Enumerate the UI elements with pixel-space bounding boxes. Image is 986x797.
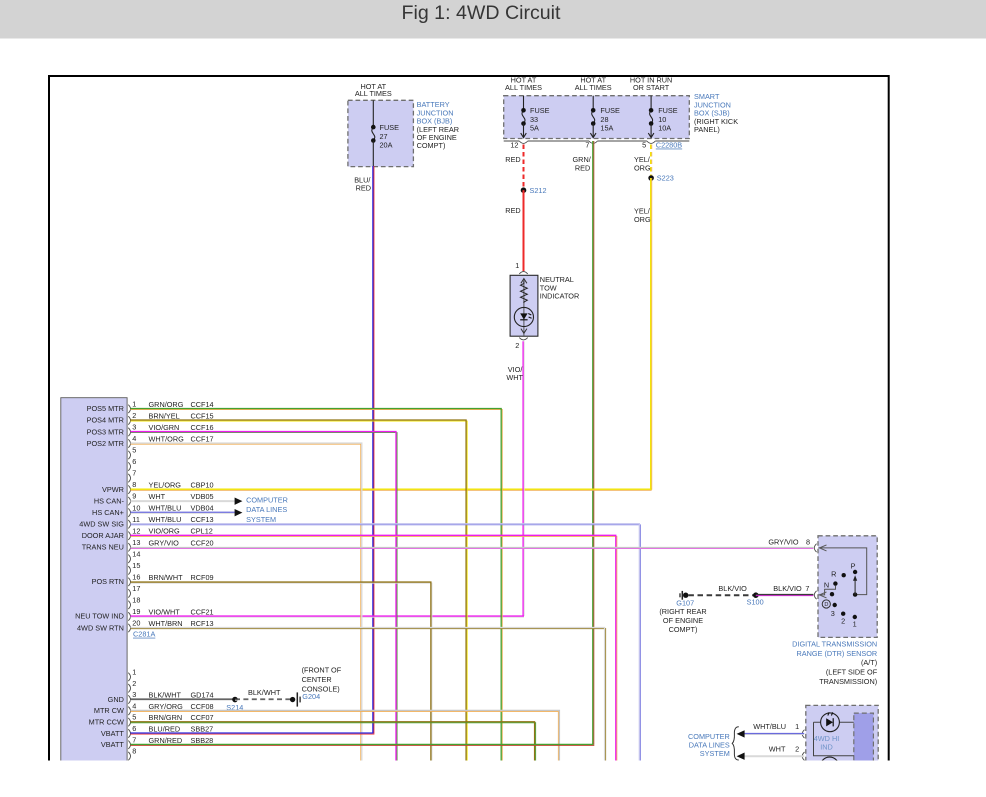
label HOT AT ALL TIMES (BJB) <box>355 82 392 98</box>
svg-text:ALL TIMES: ALL TIMES <box>505 83 542 92</box>
wire BLK/WHT pin 3 lower (GND) to splice S214 <box>130 699 235 700</box>
svg-text:CCF08: CCF08 <box>191 702 214 711</box>
diagram border frame <box>49 76 889 766</box>
wire GRN/RED from fuse 28 down to module pin 7 row <box>593 141 594 745</box>
wire BLK/WHT dashed from S214 to ground G204 <box>235 699 291 700</box>
svg-text:RCF09: RCF09 <box>191 573 214 582</box>
svg-text:Fig 1: 4WD Circuit: Fig 1: 4WD Circuit <box>402 2 562 24</box>
connector C281A pin 9 <box>94 492 214 506</box>
svg-text:(LEFT SIDE OF: (LEFT SIDE OF <box>826 668 878 677</box>
wire YEL/ORG from S223 to corner <box>651 178 652 490</box>
svg-text:4: 4 <box>132 701 136 710</box>
svg-text:CCF16: CCF16 <box>191 423 214 432</box>
svg-text:SYSTEM: SYSTEM <box>700 749 730 758</box>
svg-text:POS5 MTR: POS5 MTR <box>87 404 124 413</box>
svg-text:WHT: WHT <box>506 373 523 382</box>
wire VIO/WHT from indicator pin 2 to corner <box>523 341 524 616</box>
svg-text:WHT: WHT <box>149 492 166 501</box>
connector C281A pin 5 <box>128 446 136 460</box>
label HOT IN RUN OR START (fuse 10) <box>630 76 672 92</box>
svg-text:9: 9 <box>132 492 136 501</box>
svg-text:2: 2 <box>132 411 136 420</box>
svg-text:1: 1 <box>132 668 136 677</box>
svg-text:GND: GND <box>108 695 124 704</box>
svg-text:GRN/RED: GRN/RED <box>149 736 183 745</box>
fuse 33 5A <box>521 96 527 138</box>
wire GRN/ORG pin 1 (POS5 MTR) right and down <box>130 408 502 765</box>
svg-text:(FRONT OF: (FRONT OF <box>302 666 342 675</box>
connector C281A pin 13 <box>82 538 214 552</box>
label YEL/ORG (upper) <box>634 155 651 172</box>
connector C281A pin 2 <box>87 411 214 425</box>
digital transmission range (DTR) sensor box <box>818 536 877 638</box>
wire WHT/BRN pin 20 (4WD SW RTN) right and down <box>130 628 605 766</box>
svg-text:4WD SW SIG: 4WD SW SIG <box>79 520 124 529</box>
svg-text:P: P <box>851 562 856 571</box>
svg-text:CPL12: CPL12 <box>191 527 213 536</box>
DTR pin 8 cup <box>814 544 816 552</box>
svg-text:4: 4 <box>132 434 136 443</box>
4WD control module (left connector box) <box>61 398 127 766</box>
DTR pin 7 cup <box>814 591 816 599</box>
svg-text:IND: IND <box>820 742 833 751</box>
svg-text:TRANSMISSION): TRANSMISSION) <box>819 677 877 686</box>
svg-text:N: N <box>824 581 829 590</box>
wire BLU/RED pin 6 lower (VBATT) right and up to fuse 27 <box>130 733 374 734</box>
svg-text:GRY/VIO: GRY/VIO <box>149 538 180 547</box>
svg-text:7: 7 <box>132 735 136 744</box>
svg-text:2: 2 <box>795 745 799 754</box>
arrow to computer data lines (pin 2) <box>737 753 745 760</box>
connector C281A pin 11 <box>79 515 213 529</box>
svg-text:WHT/ORG: WHT/ORG <box>149 434 185 443</box>
connector C281B pin 6 <box>101 724 213 738</box>
svg-text:BRN/GRN: BRN/GRN <box>149 713 183 722</box>
neutral tow indicator <box>510 275 538 336</box>
svg-text:(RIGHT REAR: (RIGHT REAR <box>659 607 706 616</box>
label FUSE 33 5A <box>530 106 550 132</box>
svg-text:TRANS NEU: TRANS NEU <box>82 543 124 552</box>
svg-text:CCF17: CCF17 <box>191 434 214 443</box>
connector C281A pin 6 <box>128 457 136 471</box>
svg-text:DOOR AJAR: DOOR AJAR <box>82 531 124 540</box>
4WD HI IND pin 2 cup <box>802 752 804 760</box>
label FUSE 27 20A <box>380 123 400 149</box>
svg-text:COMPUTER: COMPUTER <box>246 496 288 505</box>
svg-text:POS3 MTR: POS3 MTR <box>87 427 124 436</box>
svg-text:BLK/VIO: BLK/VIO <box>773 584 802 593</box>
svg-text:S100: S100 <box>747 598 764 607</box>
svg-text:COMPT): COMPT) <box>669 625 698 634</box>
svg-text:ALL TIMES: ALL TIMES <box>575 83 612 92</box>
DTR internal circuit <box>819 545 867 619</box>
connector C281A pin 15 <box>128 561 140 575</box>
svg-text:1: 1 <box>515 261 519 270</box>
svg-text:WHT/BLU: WHT/BLU <box>149 504 182 513</box>
label HOT AT ALL TIMES (fuse 28) <box>575 76 612 92</box>
svg-text:WHT/BLU: WHT/BLU <box>149 515 182 524</box>
label DIGITAL TRANSMISSION RANGE (DTR) SENSOR (A/T) (LEFT SIDE OF TRANSMISSION) <box>792 639 878 686</box>
svg-text:RED: RED <box>505 155 520 164</box>
wire WHT/ORG pin 4 (POS2 MTR) right and down <box>130 443 361 765</box>
svg-text:S223: S223 <box>657 174 674 183</box>
connector C281A pin 14 <box>128 549 140 563</box>
svg-text:10: 10 <box>132 503 140 512</box>
svg-text:COMPT): COMPT) <box>417 141 446 150</box>
svg-text:D: D <box>824 602 828 608</box>
title banner <box>0 0 986 39</box>
arrow to computer data lines (pin 10) <box>235 509 243 516</box>
svg-text:PANEL): PANEL) <box>694 125 720 134</box>
svg-text:8: 8 <box>132 480 136 489</box>
wire VIO/GRN pin 3 (POS3 MTR) right and down <box>130 432 397 766</box>
connector C281B pin 7 <box>101 735 213 749</box>
svg-text:G204: G204 <box>302 692 320 701</box>
fuse 27 20A <box>371 100 376 166</box>
svg-text:3: 3 <box>132 690 136 699</box>
svg-text:18: 18 <box>132 596 140 605</box>
label VIO/WHT <box>506 365 523 382</box>
svg-text:7: 7 <box>132 469 136 478</box>
connector C281A pin 12 <box>82 526 213 540</box>
wire BRN/GRN pin 5 lower (MTR CCW) right and down <box>130 722 535 766</box>
svg-text:MTR CCW: MTR CCW <box>89 717 124 726</box>
wire WHT/BLU pin 10 (HS CAN+) to computer data lines <box>130 512 234 513</box>
svg-text:11: 11 <box>132 515 140 524</box>
svg-text:RED: RED <box>356 184 371 193</box>
svg-text:CCF07: CCF07 <box>191 713 214 722</box>
fuse 28 15A <box>590 96 596 138</box>
ground G204 <box>290 692 300 706</box>
wire WHT/BLU pin 11 (4WD SW SIG) right and down <box>130 524 640 766</box>
label FUSE 10 10A <box>658 106 678 132</box>
connector C281A pin 8 <box>102 480 214 494</box>
wire BRN/YEL pin 2 (POS4 MTR) right and down <box>130 420 467 765</box>
svg-text:C281A: C281A <box>133 630 155 639</box>
arrow to computer data lines (pin 9) <box>235 497 243 504</box>
svg-text:GRN/ORG: GRN/ORG <box>149 400 184 409</box>
svg-text:6: 6 <box>132 457 136 466</box>
svg-text:RED: RED <box>505 206 520 215</box>
wire BRN/WHT pin 16 (POS RTN) right and down <box>130 582 432 765</box>
wire WHT/BLU to 4WD HI IND pin 1 <box>744 733 804 734</box>
svg-text:BRN/WHT: BRN/WHT <box>149 573 184 582</box>
svg-text:5: 5 <box>132 446 136 455</box>
splice S100 <box>753 592 759 598</box>
svg-text:(A/T): (A/T) <box>861 658 877 667</box>
svg-text:20A: 20A <box>380 140 393 149</box>
svg-text:C2280B: C2280B <box>656 141 683 150</box>
svg-text:5: 5 <box>642 141 646 150</box>
svg-text:15: 15 <box>132 561 140 570</box>
wire WHT to 4WD HI IND pin 2 <box>744 755 804 757</box>
curly brace (computer data lines) <box>732 727 739 760</box>
label BLU/RED <box>354 175 371 192</box>
arrow to computer data lines (pin 1) <box>737 730 745 737</box>
svg-text:WHT/BRN: WHT/BRN <box>149 619 183 628</box>
splice S212 <box>521 187 527 193</box>
svg-text:GRY/ORG: GRY/ORG <box>149 702 184 711</box>
splice S223 <box>648 175 654 181</box>
svg-text:GD174: GD174 <box>191 691 214 700</box>
smart junction box (SJB) <box>504 96 690 139</box>
svg-text:CONSOLE): CONSOLE) <box>302 684 340 693</box>
svg-text:ALL TIMES: ALL TIMES <box>355 89 392 98</box>
svg-text:1: 1 <box>132 400 136 409</box>
svg-text:CENTER: CENTER <box>302 675 332 684</box>
svg-text:VPWR: VPWR <box>102 485 124 494</box>
svg-text:BLK/WHT: BLK/WHT <box>149 691 182 700</box>
svg-text:1: 1 <box>853 620 857 629</box>
svg-text:VIO/WHT: VIO/WHT <box>149 607 181 616</box>
connector C281A pin 20 <box>77 619 214 633</box>
svg-text:14: 14 <box>132 549 140 558</box>
svg-text:DIGITAL TRANSMISSION: DIGITAL TRANSMISSION <box>792 639 877 648</box>
connector C281B pin 1 <box>128 668 136 682</box>
label (RIGHT REAR OF ENGINE COMPT) <box>659 607 706 634</box>
svg-text:20: 20 <box>132 619 140 628</box>
connector C281B pin 2 <box>128 679 136 693</box>
wire RED dashed from fuse 33 to splice S212 <box>523 145 525 191</box>
module name SMART JUNCTION BOX (SJB) <box>694 92 738 134</box>
svg-text:WHT: WHT <box>769 745 786 754</box>
svg-text:POS RTN: POS RTN <box>92 577 124 586</box>
wire BLK/VIO dashed from G107 to splice S100 <box>688 594 755 596</box>
svg-text:RANGE (DTR) SENSOR: RANGE (DTR) SENSOR <box>797 649 878 658</box>
svg-text:POS4 MTR: POS4 MTR <box>87 416 124 425</box>
wire GRY/ORG pin 4 lower (MTR CW) right and down <box>130 710 559 765</box>
wire VIO/ORG pin 12 (DOOR AJAR) right and down <box>130 535 616 765</box>
connector C281A pin 1 <box>87 400 214 414</box>
connector C281A pin 7 <box>128 469 136 483</box>
svg-text:VIO/ORG: VIO/ORG <box>149 527 181 536</box>
connector C281A pin 18 <box>128 596 140 610</box>
svg-text:GRY/VIO: GRY/VIO <box>768 537 799 546</box>
wire RED from S212 to neutral tow indicator pin 1 <box>523 190 525 271</box>
connector C281A pin 4 <box>87 434 214 448</box>
svg-text:YEL/ORG: YEL/ORG <box>149 481 182 490</box>
svg-text:3: 3 <box>132 423 136 432</box>
svg-text:8: 8 <box>132 747 136 756</box>
svg-text:16: 16 <box>132 572 140 581</box>
4WD HI IND pin 1 cup <box>802 730 804 738</box>
svg-text:4WD SW RTN: 4WD SW RTN <box>77 623 124 632</box>
svg-text:CCF21: CCF21 <box>191 607 214 616</box>
svg-text:MTR CW: MTR CW <box>94 706 124 715</box>
svg-text:HS CAN-: HS CAN- <box>94 496 125 505</box>
svg-text:2: 2 <box>132 679 136 688</box>
indicator pin 2 cup <box>519 338 527 340</box>
svg-text:15A: 15A <box>600 123 613 132</box>
svg-text:CBP10: CBP10 <box>191 481 214 490</box>
svg-text:DATA LINES: DATA LINES <box>246 505 287 514</box>
svg-text:VDB04: VDB04 <box>191 504 214 513</box>
connector C281B pin 5 <box>89 713 214 727</box>
4WD HI indicator box <box>806 705 878 767</box>
svg-text:SBB27: SBB27 <box>191 724 214 733</box>
battery junction box (BJB) <box>348 100 414 166</box>
svg-text:OR START: OR START <box>633 83 670 92</box>
svg-text:7: 7 <box>585 141 589 150</box>
wire WHT pin 9 (HS CAN-) to computer data lines <box>130 500 234 502</box>
svg-text:VDB05: VDB05 <box>191 492 214 501</box>
connector C281B pin 9 (clipped) <box>128 763 130 771</box>
label NEUTRAL TOW INDICATOR <box>540 275 579 300</box>
wire YEL/ORG dashed from fuse 10 to splice S223 <box>651 145 652 179</box>
svg-text:POS2 MTR: POS2 MTR <box>87 439 124 448</box>
svg-text:BLU/RED: BLU/RED <box>149 724 181 733</box>
svg-text:1: 1 <box>795 722 799 731</box>
svg-text:ORG: ORG <box>634 215 651 224</box>
connector C281B pin 8 <box>128 747 136 761</box>
svg-text:CCF13: CCF13 <box>191 515 214 524</box>
connector C281B pin 3 <box>108 690 214 704</box>
svg-text:HS CAN+: HS CAN+ <box>92 508 124 517</box>
label HOT AT ALL TIMES (fuse 33) <box>505 76 542 92</box>
svg-text:3: 3 <box>831 609 835 618</box>
module name BATTERY JUNCTION BOX (BJB) <box>417 100 459 150</box>
label GRN/RED <box>573 155 592 172</box>
svg-text:19: 19 <box>132 607 140 616</box>
label FUSE 28 15A <box>600 106 620 132</box>
svg-text:10A: 10A <box>658 123 671 132</box>
svg-text:12: 12 <box>132 526 140 535</box>
wire BLU/RED from fuse 27 down to module pin 6 row <box>373 166 374 733</box>
svg-text:R: R <box>831 570 836 579</box>
connector C281B pin 4 <box>94 701 214 715</box>
svg-text:BLK/WHT: BLK/WHT <box>248 688 281 697</box>
svg-text:SBB28: SBB28 <box>191 736 214 745</box>
svg-text:VBATT: VBATT <box>101 740 125 749</box>
connector C281A pin 19 <box>75 607 214 621</box>
svg-text:VBATT: VBATT <box>101 729 125 738</box>
svg-text:6: 6 <box>132 724 136 733</box>
connector C281A pin 10 <box>92 503 214 517</box>
svg-text:CCF15: CCF15 <box>191 411 214 420</box>
svg-text:S212: S212 <box>530 186 547 195</box>
svg-text:5: 5 <box>132 713 136 722</box>
svg-text:ORG: ORG <box>634 163 651 172</box>
splice S214 <box>232 697 238 703</box>
svg-text:5A: 5A <box>530 123 539 132</box>
svg-text:BLK/VIO: BLK/VIO <box>718 584 747 593</box>
svg-text:SYSTEM: SYSTEM <box>246 515 276 524</box>
connector C281A pin 3 <box>87 423 214 437</box>
svg-text:VIO/GRN: VIO/GRN <box>149 423 180 432</box>
svg-text:NEU TOW IND: NEU TOW IND <box>75 612 124 621</box>
4WD HI IND internal circuit <box>814 712 874 776</box>
svg-text:INDICATOR: INDICATOR <box>540 292 579 301</box>
svg-text:RCF13: RCF13 <box>191 619 214 628</box>
label YEL/ORG (lower) <box>634 207 651 224</box>
svg-text:RED: RED <box>575 163 590 172</box>
ground G107 <box>680 591 688 600</box>
wire YEL/ORG horizontal to module pin 8 (VPWR) <box>130 489 651 490</box>
wire BLK/VIO from S100 to DTR sensor pin 7 <box>756 595 814 596</box>
svg-text:17: 17 <box>132 584 140 593</box>
wire GRY/VIO pin 13 (TRANS NEU) to DTR sensor pin 8 <box>130 547 813 548</box>
svg-text:CCF14: CCF14 <box>191 400 214 409</box>
svg-text:13: 13 <box>132 538 140 547</box>
svg-text:WHT/BLU: WHT/BLU <box>753 722 786 731</box>
svg-text:7: 7 <box>805 584 809 593</box>
connector C281A pin 16 <box>92 572 214 586</box>
label 4WD HI IND <box>814 734 840 751</box>
svg-text:CCF20: CCF20 <box>191 538 214 547</box>
svg-text:2: 2 <box>841 616 845 625</box>
svg-text:BRN/YEL: BRN/YEL <box>149 411 180 420</box>
svg-text:2: 2 <box>515 341 519 350</box>
svg-text:12: 12 <box>510 141 518 150</box>
svg-text:8: 8 <box>806 537 810 546</box>
wire VIO/WHT horizontal to module pin 19 (NEU TOW IND) <box>130 616 524 617</box>
fuse 10 10A <box>648 96 654 138</box>
svg-text:OF ENGINE: OF ENGINE <box>663 616 703 625</box>
indicator pin 1 cup <box>519 272 527 274</box>
label COMPUTER DATA LINES SYSTEM (lower) <box>688 732 730 758</box>
connector C281A pin 17 <box>128 584 140 598</box>
connector C2280B line with pin cups <box>504 141 690 143</box>
wire GRN/RED pin 7 lower (VBATT) right and up to fuse 28 <box>130 744 593 745</box>
label COMPUTER DATA LINES SYSTEM (upper) <box>246 496 288 524</box>
label (FRONT OF CENTER CONSOLE) <box>302 666 342 694</box>
